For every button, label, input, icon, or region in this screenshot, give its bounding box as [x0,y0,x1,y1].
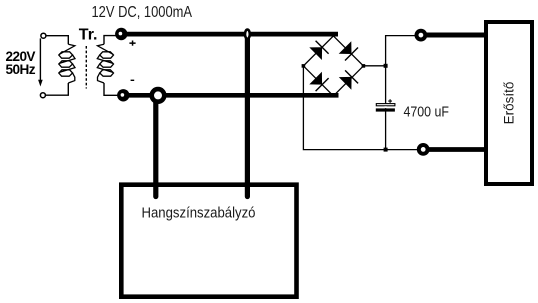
wire drop to tone-control left (thick) [153,96,158,197]
wire drop to tone-control right (thick) [245,36,250,197]
svg-text:Erősítő: Erősítő [502,82,517,125]
capacitor C1 plates [376,104,395,112]
bridge rectifier outline [303,36,363,96]
terminal top-left [41,33,46,38]
diode D3 (left to bottom) [309,72,329,92]
svg-text:50Hz: 50Hz [6,62,36,77]
label capacitor polarity + [388,99,392,103]
transformer T1 secondary winding [97,44,113,83]
wire capacitor branch vertical [386,36,416,150]
mask wire gap between capacitor plates [385,106,387,108]
svg-text:Hangszínszabályzó: Hangszínszabályzó [142,204,256,221]
diode D4 (bottom to right) [339,70,359,90]
label 220V 50Hz [6,49,36,77]
wire primary top [47,36,69,45]
svg-text:Tr.: Tr. [79,27,98,44]
wire secondary bottom [104,83,118,95]
diode D2 (top to right) [338,41,358,61]
node junction bottom of capacitor [384,148,388,152]
node junction top of capacitor [384,64,388,68]
block amplifier (Erősítő) [486,22,532,184]
svg-text:4700 uF: 4700 uF [404,104,450,120]
connector plug plus [115,28,127,40]
arrow mains polarity [38,38,43,86]
wire to amplifier top (thick) [425,33,485,38]
connector ring on plus wire [245,30,250,39]
wire primary bottom [46,83,68,95]
wire DC minus (thick) [124,93,339,98]
connector ring amplifier top [417,31,426,40]
svg-text:12V DC, 1000mA: 12V DC, 1000mA [92,4,193,21]
wire to bottom ring (thin) [386,149,418,151]
node bridge right corner [362,64,366,68]
connector ring on minus wire [152,89,165,102]
wire to amplifier bottom (thick) [427,147,485,152]
wire secondary top [104,36,117,45]
diode D1 (left to top) [309,41,329,61]
connector ring amplifier bottom [419,145,428,154]
terminal bottom-left [40,93,45,98]
label - [131,80,135,81]
connector plug minus [117,89,129,101]
wire bridge negative return (thin) [303,67,385,150]
transformer T1 primary winding [59,44,75,83]
node bridge left corner [302,64,306,68]
transformer T1 core (dashed) [85,46,87,89]
block tone control (Hangszínszabályzó) [121,185,296,297]
label + [129,41,135,46]
wire bridge positive output (thin) [364,65,386,67]
wire DC plus (thick) [122,32,338,37]
